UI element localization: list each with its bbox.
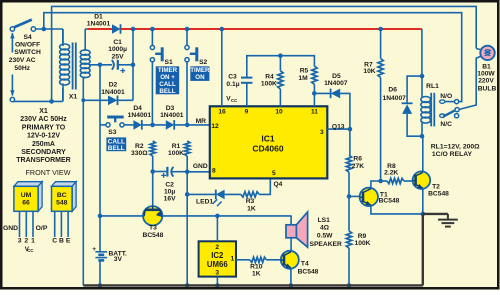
svg-text:C: C — [52, 238, 57, 245]
svg-text:R10: R10 — [250, 263, 263, 270]
svg-text:BC548: BC548 — [142, 232, 163, 239]
svg-text:4Ω: 4Ω — [320, 224, 330, 231]
svg-text:16: 16 — [218, 109, 226, 116]
svg-text:1M: 1M — [298, 75, 308, 82]
svg-text:BELL: BELL — [108, 145, 125, 152]
svg-text:BC548: BC548 — [428, 191, 449, 198]
svg-text:Q13: Q13 — [332, 123, 345, 130]
svg-text:CC: CC — [27, 248, 33, 253]
svg-text:BC548: BC548 — [379, 197, 400, 204]
svg-text:R5: R5 — [300, 68, 309, 75]
svg-text:1K: 1K — [252, 271, 261, 278]
svg-text:UM: UM — [21, 192, 32, 199]
svg-text:10: 10 — [275, 109, 283, 116]
svg-text:O/P: O/P — [36, 225, 48, 232]
svg-text:R3: R3 — [246, 198, 255, 205]
svg-text:N/O: N/O — [440, 93, 452, 100]
svg-text:1: 1 — [230, 255, 234, 262]
svg-text:T2: T2 — [432, 184, 440, 191]
svg-text:12: 12 — [211, 123, 219, 130]
svg-text:100K: 100K — [355, 240, 371, 247]
svg-text:ON/OFF: ON/OFF — [15, 42, 40, 49]
svg-text:ON +: ON + — [160, 74, 175, 81]
svg-text:D1: D1 — [94, 14, 103, 21]
svg-text:8: 8 — [212, 167, 216, 174]
svg-text:9: 9 — [245, 109, 249, 116]
svg-text:2: 2 — [24, 238, 28, 245]
svg-text:UM66: UM66 — [207, 260, 228, 269]
svg-text:50Hz: 50Hz — [14, 65, 30, 72]
svg-text:D5: D5 — [332, 73, 341, 80]
svg-text:ON: ON — [195, 74, 205, 81]
svg-text:SWITCH: SWITCH — [14, 49, 41, 56]
svg-text:RL1: RL1 — [426, 83, 439, 90]
svg-text:GND: GND — [3, 225, 18, 232]
svg-text:+: + — [92, 246, 96, 253]
svg-text:1N4001: 1N4001 — [101, 89, 125, 96]
svg-text:250mA: 250mA — [32, 141, 55, 148]
svg-text:11: 11 — [311, 109, 318, 116]
svg-text:CD4060: CD4060 — [252, 144, 283, 154]
svg-text:2.2K: 2.2K — [384, 170, 398, 177]
svg-text:LS1: LS1 — [318, 217, 331, 224]
svg-text:TIMER: TIMER — [190, 67, 210, 74]
svg-text:1N4001: 1N4001 — [128, 112, 152, 119]
svg-text:D2: D2 — [109, 82, 118, 89]
svg-text:BELL: BELL — [159, 88, 175, 95]
svg-text:12V-0-12V: 12V-0-12V — [27, 133, 60, 140]
svg-text:T3: T3 — [149, 225, 157, 232]
svg-text:1N4007: 1N4007 — [324, 80, 348, 87]
svg-text:BC: BC — [57, 192, 67, 199]
svg-text:16V: 16V — [164, 196, 176, 203]
svg-text:3V: 3V — [114, 256, 123, 263]
svg-text:B: B — [59, 238, 64, 245]
svg-text:GND: GND — [193, 163, 208, 170]
svg-text:Q4: Q4 — [273, 181, 282, 188]
svg-text:RL1=12V, 200Ω: RL1=12V, 200Ω — [431, 143, 480, 150]
svg-text:1N4001: 1N4001 — [160, 112, 184, 119]
svg-text:3: 3 — [18, 238, 22, 245]
svg-text:CALL: CALL — [159, 81, 176, 88]
svg-text:FRONT VIEW: FRONT VIEW — [26, 168, 71, 177]
svg-text:T4: T4 — [301, 261, 309, 268]
svg-text:3: 3 — [320, 129, 324, 136]
svg-text:IC2: IC2 — [211, 251, 224, 260]
svg-text:IC1: IC1 — [261, 134, 275, 144]
svg-text:C3: C3 — [228, 74, 237, 81]
svg-text:N/C: N/C — [440, 121, 452, 128]
svg-text:10K: 10K — [363, 68, 375, 75]
svg-text:S3: S3 — [108, 129, 116, 136]
svg-text:1N4001: 1N4001 — [87, 21, 111, 28]
svg-text:0.5W: 0.5W — [317, 232, 333, 239]
svg-text:BC548: BC548 — [298, 269, 319, 276]
svg-text:100K: 100K — [168, 150, 184, 157]
svg-text:1K: 1K — [247, 205, 256, 212]
svg-text:220V: 220V — [478, 78, 494, 85]
svg-text:R1: R1 — [172, 143, 181, 150]
svg-text:S4: S4 — [24, 34, 32, 41]
svg-text:S2: S2 — [199, 59, 207, 66]
svg-text:TIMER: TIMER — [158, 67, 178, 74]
svg-text:100W: 100W — [477, 71, 495, 78]
svg-text:R6: R6 — [353, 156, 362, 163]
svg-text:X1: X1 — [39, 108, 48, 115]
svg-text:MR: MR — [196, 118, 207, 125]
svg-text:PRIMARY TO: PRIMARY TO — [22, 124, 66, 131]
svg-text:10µ: 10µ — [164, 189, 175, 196]
svg-text:5: 5 — [272, 170, 276, 177]
svg-text:SPEAKER: SPEAKER — [310, 241, 343, 248]
svg-text:D6: D6 — [388, 87, 397, 94]
svg-text:R4: R4 — [265, 73, 274, 80]
svg-text:1: 1 — [31, 238, 35, 245]
svg-text:SECONDARY: SECONDARY — [21, 149, 66, 156]
svg-text:2: 2 — [215, 244, 219, 251]
svg-text:66: 66 — [22, 199, 30, 206]
svg-text:CC: CC — [231, 98, 238, 103]
svg-text:548: 548 — [56, 199, 68, 206]
svg-text:D3: D3 — [166, 105, 175, 112]
svg-text:1N4007: 1N4007 — [382, 95, 406, 102]
svg-text:D4: D4 — [133, 105, 142, 112]
svg-text:R2: R2 — [135, 143, 144, 150]
svg-text:330Ω: 330Ω — [131, 150, 148, 157]
svg-text:1C/O RELAY: 1C/O RELAY — [432, 151, 473, 158]
svg-text:0.1µ: 0.1µ — [226, 81, 239, 88]
svg-text:X1: X1 — [69, 94, 77, 101]
svg-text:BULB: BULB — [478, 85, 497, 92]
svg-text:230V AC: 230V AC — [9, 57, 36, 64]
svg-text:230V AC 50Hz: 230V AC 50Hz — [20, 116, 67, 123]
svg-text:C2: C2 — [165, 182, 174, 189]
svg-text:C1: C1 — [113, 39, 122, 46]
svg-text:25V: 25V — [112, 54, 124, 61]
svg-text:TRANSFORMER: TRANSFORMER — [16, 157, 70, 164]
svg-text:1000µ: 1000µ — [108, 46, 127, 53]
svg-text:S1: S1 — [165, 59, 173, 66]
svg-text:E: E — [66, 238, 71, 245]
svg-text:LED1: LED1 — [196, 199, 213, 206]
svg-text:27K: 27K — [352, 163, 364, 170]
svg-text:100K: 100K — [261, 81, 277, 88]
svg-text:3: 3 — [215, 269, 219, 276]
